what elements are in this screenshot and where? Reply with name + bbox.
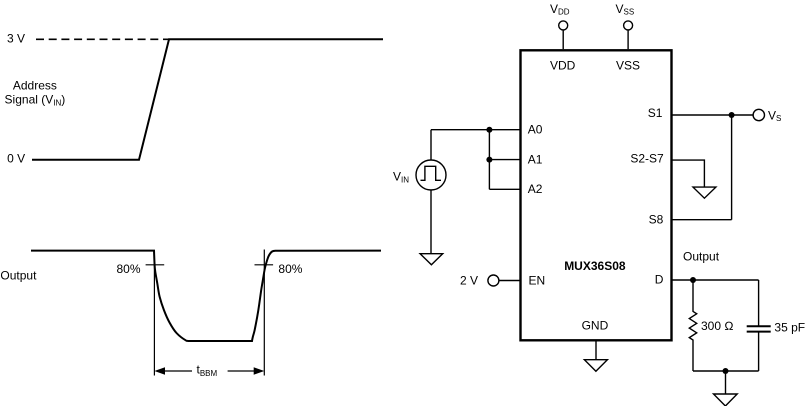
svg-text:A0: A0: [528, 122, 543, 136]
svg-text:VDD: VDD: [550, 2, 570, 17]
svg-text:Address: Address: [13, 78, 57, 92]
svg-text:2 V: 2 V: [460, 274, 478, 288]
svg-text:VSS: VSS: [616, 2, 635, 17]
svg-text:D: D: [655, 273, 664, 287]
svg-text:80%: 80%: [116, 262, 140, 276]
svg-text:tBBM: tBBM: [197, 363, 218, 379]
svg-text:Signal (VIN): Signal (VIN): [5, 93, 66, 108]
svg-text:EN: EN: [529, 274, 546, 288]
svg-text:Output: Output: [0, 268, 37, 282]
svg-text:300 Ω: 300 Ω: [701, 319, 734, 333]
svg-text:S1: S1: [648, 106, 663, 120]
svg-text:35 pF: 35 pF: [774, 321, 805, 335]
svg-text:0 V: 0 V: [7, 152, 25, 166]
svg-text:S2-S7: S2-S7: [630, 152, 664, 166]
svg-text:A2: A2: [528, 182, 543, 196]
svg-text:S8: S8: [649, 213, 664, 227]
svg-text:VS: VS: [768, 108, 781, 123]
svg-text:VIN: VIN: [393, 170, 409, 185]
svg-text:VDD: VDD: [550, 58, 576, 72]
svg-text:Output: Output: [683, 249, 720, 263]
svg-text:GND: GND: [582, 318, 609, 332]
svg-text:MUX36S08: MUX36S08: [564, 259, 626, 273]
svg-text:3 V: 3 V: [7, 31, 25, 45]
svg-text:A1: A1: [528, 152, 543, 166]
svg-text:80%: 80%: [278, 262, 302, 276]
svg-text:VSS: VSS: [616, 58, 640, 72]
